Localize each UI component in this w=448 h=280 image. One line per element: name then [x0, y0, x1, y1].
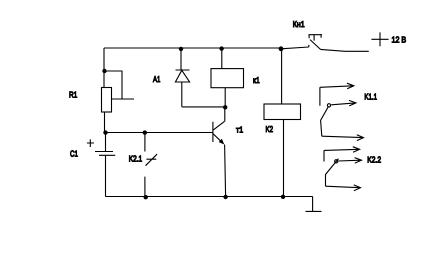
wire R1 bottom to node [104, 112, 106, 133]
svg-text:т1: т1 [236, 125, 243, 135]
wire diode anode to collector node [182, 106, 225, 108]
contact K2.2 pivot [335, 160, 338, 163]
svg-text:K2.2: K2.2 [367, 154, 381, 164]
contact K1.1 throw middle [331, 100, 356, 106]
svg-text:12 В: 12 В [392, 35, 407, 45]
wire K2 coil top lead [281, 49, 283, 104]
contact K1.1 fixed throw top [320, 83, 354, 106]
contact K2.2 common lead [326, 185, 361, 191]
transistor T1 emitter arrow [219, 139, 225, 145]
node R1 top junction [102, 69, 106, 73]
node K1 top junction [219, 46, 223, 50]
wire K1 coil bottom lead [224, 88, 226, 108]
wire base rail [105, 132, 213, 134]
wire emitter to bottom rail [225, 145, 226, 197]
wire bottom rail [106, 196, 313, 198]
wire top rail [104, 47, 281, 49]
wire left rail upper [103, 48, 105, 88]
capacitor C1 [95, 133, 115, 197]
power supply plus 12V [371, 32, 388, 46]
resistor R1 [102, 88, 112, 113]
node diode top junction [179, 47, 183, 51]
button Kn1 contact arm [310, 40, 321, 50]
node emitter bottom junction [223, 195, 227, 199]
ground [306, 197, 322, 212]
wire K2 coil bottom lead [283, 120, 285, 197]
label C1 polarity plus [87, 139, 94, 147]
diode A1 [175, 49, 189, 107]
svg-text:K1.1: K1.1 [364, 92, 377, 102]
svg-text:Кн1: Кн1 [293, 19, 305, 29]
wire collector [224, 107, 226, 121]
wire R1 wiper tap [105, 71, 135, 99]
button Kn1 actuator [309, 35, 323, 41]
contact K1.1 pivot [327, 104, 330, 107]
node K2.1 bottom junction [144, 195, 148, 199]
contact K2.2 moving arm [326, 159, 339, 187]
button Kn1 wire left [281, 45, 309, 49]
svg-text:K2.1: K2.1 [129, 154, 143, 164]
contact K2.2 throw middle [338, 158, 361, 164]
svg-text:А1: А1 [153, 74, 161, 84]
contact K1.1 common lead [322, 135, 364, 141]
svg-text:C1: C1 [70, 149, 78, 159]
transistor T1 [213, 121, 225, 143]
svg-text:R1: R1 [69, 90, 78, 100]
relay coil K2 [264, 104, 301, 120]
contact K1.1 moving arm [321, 107, 329, 137]
node K2.1 top junction [143, 130, 147, 134]
node K2 bottom junction [281, 195, 285, 199]
svg-text:к1: к1 [253, 75, 260, 85]
node collector junction [223, 105, 227, 109]
wire K1 coil top lead [221, 49, 223, 69]
contact K2.1 [145, 133, 157, 197]
button Kn1 wire right [321, 49, 369, 51]
relay coil K1 [211, 69, 244, 88]
node top rail right junction [279, 46, 284, 51]
node base-left junction [103, 130, 107, 134]
contact K2.2 fixed throw top [324, 147, 360, 162]
svg-text:K2: K2 [266, 124, 274, 134]
